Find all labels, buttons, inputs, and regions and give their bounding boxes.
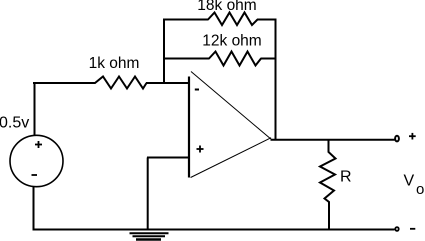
label Vo xyxy=(404,173,425,199)
svg-text:o: o xyxy=(416,181,424,198)
wire source bottom vertical xyxy=(33,187,35,231)
wire source top vertical xyxy=(34,82,36,136)
wire 18k left segment xyxy=(163,19,209,21)
output terminal negative xyxy=(395,227,398,231)
resistor 1k xyxy=(95,77,147,89)
resistor R xyxy=(320,140,336,230)
svg-text:0.5v: 0.5v xyxy=(0,115,29,132)
wire op-amp output xyxy=(271,139,395,141)
svg-text:V: V xyxy=(404,173,415,190)
resistor 18k xyxy=(208,13,258,26)
op-amp inverting input minus sign xyxy=(195,89,199,91)
op-amp U1 left edge xyxy=(188,77,190,178)
op-amp U1 bottom hypotenuse xyxy=(191,138,272,178)
wire ground rail bottom xyxy=(33,229,395,231)
output terminal positive xyxy=(395,136,399,142)
wire source to 1k resistor xyxy=(33,82,96,84)
wire non-inverting input vertical to ground rail xyxy=(147,158,149,231)
wire 18k right segment xyxy=(257,19,277,21)
svg-text:12k ohm: 12k ohm xyxy=(202,33,261,50)
wire feedback left vertical xyxy=(163,19,165,85)
label minus at negative terminal xyxy=(410,228,415,230)
svg-text:R: R xyxy=(340,169,352,186)
voltage source V1 xyxy=(10,135,63,186)
label plus at positive terminal xyxy=(409,133,416,140)
ground xyxy=(130,233,169,239)
op-amp non-inverting input plus sign xyxy=(197,146,204,153)
op-amp U1 top hypotenuse xyxy=(191,72,271,140)
wire 1k resistor to op-amp inverting input xyxy=(146,82,189,84)
wire 12k left segment xyxy=(163,58,210,60)
wire 12k right segment xyxy=(261,58,277,60)
wire feedback right vertical xyxy=(275,19,277,141)
resistor 12k xyxy=(209,52,261,66)
wire non-inverting input horizontal xyxy=(147,157,189,159)
svg-text:1k ohm: 1k ohm xyxy=(89,55,140,72)
svg-text:18k ohm: 18k ohm xyxy=(197,0,256,14)
